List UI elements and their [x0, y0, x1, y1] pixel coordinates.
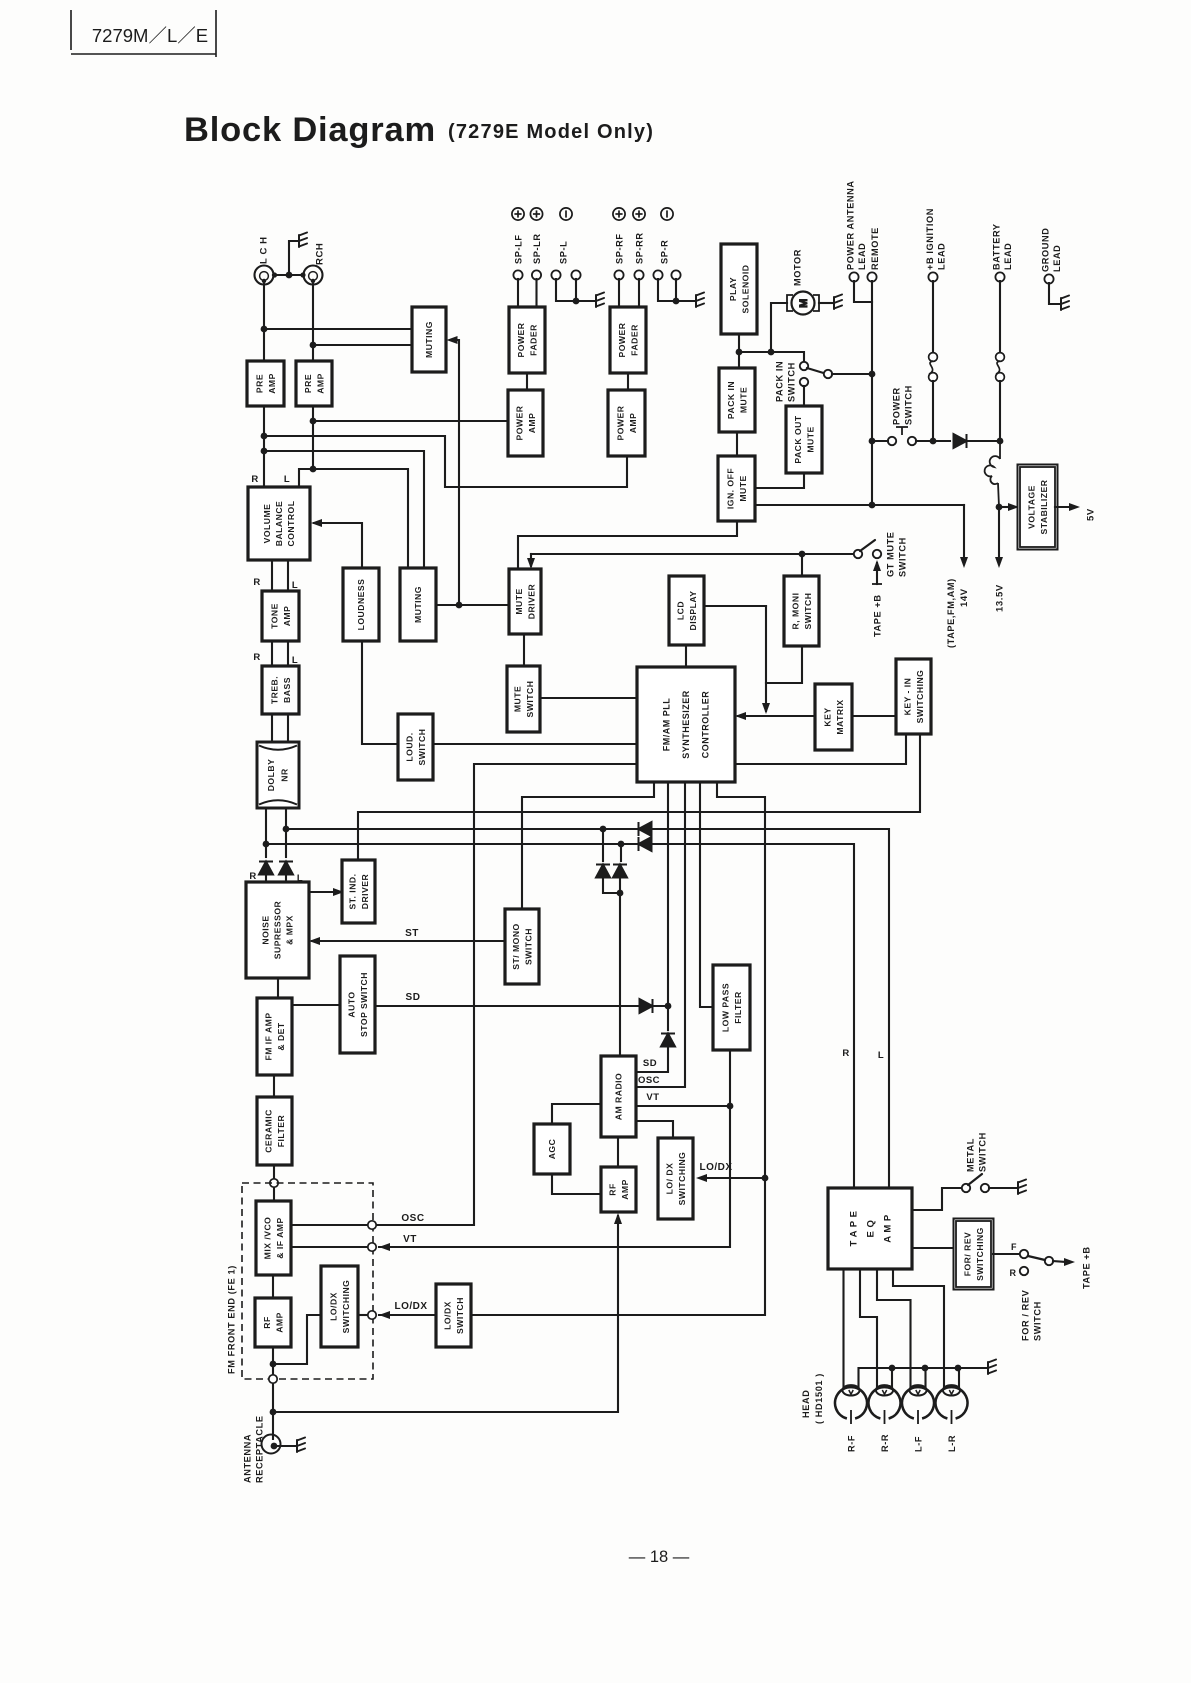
svg-text:13.5V: 13.5V	[994, 584, 1005, 612]
ground SP-R	[696, 293, 704, 308]
junction lo/dx am	[762, 1175, 769, 1182]
svg-text:HEAD: HEAD	[801, 1390, 811, 1418]
wire key-in scan line	[358, 734, 920, 860]
wire fader2 to amp2	[627, 373, 629, 390]
block NOISE SUPRESSOR MPX	[246, 882, 309, 978]
wire am radio to lo/dx sw	[636, 1121, 673, 1138]
svg-text:MATRIX: MATRIX	[835, 699, 845, 734]
svg-text:SOLENOID: SOLENOID	[740, 265, 750, 314]
arrow into MUTE DRIVER	[527, 558, 535, 569]
terminal SP-R b	[671, 270, 680, 279]
arrow into voltage stab	[1008, 503, 1019, 511]
block IGN OFF MUTE	[718, 456, 755, 521]
wire R to MUTING	[313, 344, 412, 346]
terminal SP-LF	[513, 270, 522, 279]
wire solenoid to switch	[739, 352, 804, 362]
wire fm if to ceramic	[273, 1075, 275, 1097]
diode or L	[596, 865, 610, 878]
wire LCH-RCH shield	[273, 274, 304, 276]
svg-text:TREB.: TREB.	[269, 676, 279, 704]
junction LCH shield	[272, 272, 277, 277]
wire TREB-DOLBY R	[271, 714, 273, 742]
terminal SP-RR	[634, 270, 643, 279]
svg-text:ST. IND.: ST. IND.	[347, 874, 357, 910]
arrow 5V	[1069, 503, 1080, 511]
svg-text:MUTE: MUTE	[514, 588, 524, 614]
svg-text:LOUDNESS: LOUDNESS	[356, 579, 366, 631]
svg-text:SWITCH: SWITCH	[897, 537, 907, 577]
wire ignition upper	[932, 281, 934, 353]
svg-text:POWER: POWER	[617, 322, 627, 357]
pack in switch lever	[807, 368, 824, 373]
svg-text:L C H: L C H	[258, 236, 269, 264]
wire LOUD SWITCH to PLL	[433, 743, 637, 745]
wire head3 gnd	[924, 1368, 926, 1387]
svg-text:SWITCHING: SWITCHING	[677, 1152, 687, 1206]
svg-text:— 18 —: — 18 —	[629, 1548, 690, 1566]
diode mute R	[639, 837, 652, 851]
svg-text:KEY: KEY	[822, 707, 832, 726]
block AUTO STOP SWITCH	[340, 956, 375, 1053]
svg-text:( HD1501 ): ( HD1501 )	[814, 1373, 824, 1424]
svg-text:AMP: AMP	[274, 1312, 284, 1333]
junction head4 gnd	[955, 1365, 962, 1372]
wire noise to st ind	[309, 891, 339, 893]
svg-text:OSC: OSC	[401, 1213, 424, 1224]
wire solenoid down	[738, 334, 740, 368]
svg-text:SUPRESSOR: SUPRESSOR	[273, 900, 283, 959]
plus terminal SP-RR	[633, 208, 645, 220]
wire 5V out	[1055, 506, 1071, 508]
inductor battery	[985, 441, 1000, 507]
svg-text:TAPE +B: TAPE +B	[872, 594, 882, 637]
svg-text:AMP: AMP	[267, 373, 277, 394]
svg-text:AGC: AGC	[547, 1139, 557, 1160]
diode AM SD	[661, 1034, 675, 1047]
svg-text:CONTROL: CONTROL	[286, 501, 296, 547]
terminal GROUND LEAD	[1044, 274, 1053, 283]
svg-text:SWITCH: SWITCH	[417, 729, 427, 766]
wire SP-LF to fader	[517, 279, 519, 307]
wire metal switch feed	[912, 1188, 962, 1210]
junction motor feed	[768, 349, 775, 356]
wire agc top	[552, 1104, 601, 1124]
wire TREB-DOLBY L	[287, 714, 289, 742]
head R-R	[869, 1385, 901, 1424]
junction R to muting	[310, 342, 317, 349]
wire diode L to block	[285, 874, 287, 882]
block AM RADIO	[601, 1056, 636, 1137]
diode SD	[640, 999, 653, 1013]
svg-text:7279M／L／E: 7279M／L／E	[92, 25, 208, 46]
svg-text:SWITCHING: SWITCHING	[341, 1280, 351, 1334]
svg-text:SP-LR: SP-LR	[532, 233, 542, 264]
wire pack switch to remote line	[832, 373, 872, 375]
pack in switch contact A	[800, 362, 808, 370]
junction solenoid	[736, 349, 743, 356]
svg-text:FOR/ REV: FOR/ REV	[962, 1232, 972, 1277]
terminal SP-RF	[614, 270, 623, 279]
svg-text:DRIVER: DRIVER	[526, 583, 536, 619]
block POWER FADER 1	[509, 307, 545, 373]
svg-text:E Q: E Q	[865, 1220, 876, 1238]
svg-text:ST/ MONO: ST/ MONO	[511, 923, 521, 970]
block PRE AMP R	[296, 361, 332, 406]
pack in switch contact C	[800, 378, 808, 386]
svg-text:(TAPE,FM,AM): (TAPE,FM,AM)	[946, 578, 956, 648]
wire head3 signal	[877, 1269, 911, 1387]
wire LOUDNESS to LOUD SWITCH	[362, 641, 398, 744]
wire PRE AMP L out	[263, 406, 265, 487]
svg-text:FM/AM PLL: FM/AM PLL	[662, 698, 672, 752]
fe1 bottom circle	[269, 1375, 277, 1383]
svg-text:PLAY: PLAY	[728, 277, 738, 301]
block VOLTAGE STABILIZER	[1018, 465, 1058, 550]
block ST/MONO SWITCH	[505, 909, 539, 984]
wire RMONI top	[801, 554, 803, 576]
block POWER AMP 1	[508, 390, 543, 456]
wire head4 signal	[893, 1269, 944, 1387]
wire fm if to auto stop	[292, 1004, 340, 1006]
svg-text:R: R	[251, 474, 258, 485]
wire head4 gnd	[958, 1368, 960, 1387]
svg-text:& MPX: & MPX	[285, 915, 295, 945]
wire remote line	[871, 281, 873, 505]
wire SD junction	[653, 1005, 668, 1007]
wire L tap down2	[603, 877, 620, 893]
junction rf amp out	[270, 1361, 277, 1368]
wire preL to MUTING 2	[264, 451, 424, 568]
plus terminal SP-LF	[512, 208, 524, 220]
diode power	[954, 434, 967, 448]
wire SP-RF to fader	[618, 279, 620, 307]
terminal +B IGNITION LEAD	[928, 272, 937, 281]
block POWER FADER 2	[610, 307, 646, 373]
svg-text:VOLUME: VOLUME	[262, 504, 272, 544]
svg-text:SWITCH: SWITCH	[1032, 1301, 1042, 1341]
svg-text:PRE: PRE	[254, 374, 264, 393]
wire DOLBY out L	[285, 808, 287, 857]
metal switch lever	[968, 1174, 982, 1185]
wire pin LO/DX	[471, 782, 765, 1315]
wire remote to power switch	[872, 440, 888, 442]
svg-text:& DET: & DET	[276, 1022, 286, 1051]
wire fader1 to amp1	[526, 373, 528, 390]
svg-text:Block Diagram: Block Diagram	[184, 111, 436, 149]
wire key matrix to key-in	[852, 715, 896, 717]
wire AM SD up	[667, 1006, 669, 1030]
svg-text:REMOTE: REMOTE	[870, 227, 880, 270]
svg-text:SP-RF: SP-RF	[614, 233, 624, 264]
block MUTING 2	[400, 568, 436, 641]
junction SP-R gnd	[673, 298, 680, 305]
svg-text:LO/DX: LO/DX	[442, 1301, 452, 1330]
arrow ST into noise	[309, 937, 320, 945]
wire GT arrow down	[530, 554, 532, 566]
wire preL to POWER AMP 2	[264, 436, 627, 487]
svg-text:L: L	[284, 474, 290, 485]
for/rev contact R	[1020, 1267, 1028, 1275]
svg-text:PACK OUT: PACK OUT	[793, 415, 803, 463]
ground heads	[988, 1360, 996, 1375]
wire SP-R b gnd	[675, 279, 677, 301]
junction SD	[665, 1003, 672, 1010]
svg-text:LCD: LCD	[675, 601, 685, 620]
terminal REMOTE	[867, 272, 876, 281]
svg-text:SWITCH: SWITCH	[455, 1297, 465, 1334]
junction vt	[727, 1103, 734, 1110]
wire lo/dx circle to switching	[358, 1314, 368, 1316]
svg-text:POWER ANTENNA: POWER ANTENNA	[845, 180, 855, 270]
for/rev common	[1045, 1257, 1053, 1265]
svg-text:POWER: POWER	[615, 405, 625, 440]
wire VB-TONE R	[271, 560, 273, 591]
wire am vt out	[636, 1105, 730, 1107]
block LOW PASS FILTER	[713, 965, 750, 1050]
wire antenna ground	[278, 1445, 295, 1447]
svg-text:RCH: RCH	[314, 243, 325, 265]
wire lcd/rmoni down	[765, 606, 767, 711]
svg-text:LEAD: LEAD	[1052, 245, 1062, 272]
wire DOLBY out R	[265, 808, 267, 857]
antenna receptacle	[262, 1435, 281, 1454]
wire RCH to PRE AMP R	[312, 284, 314, 361]
svg-text:5V: 5V	[1085, 508, 1096, 521]
head R-F	[835, 1385, 867, 1424]
svg-text:DISPLAY: DISPLAY	[688, 591, 698, 631]
block R MONI SWITCH	[784, 576, 819, 646]
wire SP-R to ground	[676, 300, 694, 302]
ground lead gnd	[1061, 296, 1069, 311]
block TREB BASS	[262, 666, 299, 714]
svg-text:AMP: AMP	[628, 413, 638, 434]
block KEY-IN SWITCHING	[896, 659, 931, 734]
arrow into PLL	[735, 712, 746, 720]
wire TONE-TREB R	[271, 641, 273, 666]
svg-text:R: R	[249, 871, 256, 882]
diode DL into noise sup	[279, 862, 293, 875]
wire or merge to AM RADIO	[619, 877, 621, 1056]
pack in switch contact B	[824, 370, 832, 378]
wire head ground bus	[859, 1368, 987, 1387]
GT mute switch contact B	[873, 550, 881, 558]
svg-text:SD: SD	[643, 1058, 657, 1069]
svg-text:LEAD: LEAD	[1003, 243, 1013, 270]
wire L tap down	[602, 829, 604, 861]
svg-text:BALANCE: BALANCE	[274, 501, 284, 547]
arrow into AM RF	[614, 1213, 622, 1224]
block CERAMIC FILTER	[257, 1097, 292, 1165]
svg-text:L-F: L-F	[913, 1436, 923, 1452]
block KEY MATRIX	[815, 684, 852, 750]
junction L diode tap	[600, 826, 607, 833]
wire VB-TONE L	[287, 560, 289, 591]
terminal SP-R a	[653, 270, 662, 279]
wire ignition lower	[932, 381, 934, 441]
svg-text:LOW PASS: LOW PASS	[720, 983, 730, 1032]
ground antenna	[297, 1438, 305, 1453]
junction antenna	[270, 1409, 277, 1416]
wire ign off 14V line	[755, 504, 964, 506]
wire LCD right	[704, 605, 766, 607]
wire GT mute line	[531, 553, 854, 555]
svg-text:STABILIZER: STABILIZER	[1039, 479, 1049, 534]
wire LCD to PLL	[685, 645, 687, 667]
svg-text:POWER: POWER	[514, 405, 524, 440]
block LCD DISPLAY	[669, 576, 704, 645]
block VOLUME BALANCE CONTROL	[248, 487, 310, 560]
arrow onto key wire	[762, 703, 770, 714]
wire SD line	[375, 1005, 638, 1007]
svg-text:SP-LF: SP-LF	[513, 234, 523, 264]
wire motor to ground	[819, 302, 832, 304]
wire L to MUTING	[264, 328, 412, 330]
svg-text:MUTE: MUTE	[738, 387, 748, 413]
svg-text:SWITCH: SWITCH	[786, 362, 796, 402]
terminal SP-L a	[551, 270, 560, 279]
wire preR to POWER AMP 1	[313, 420, 508, 422]
wire PRE AMP R out	[312, 406, 314, 469]
RCH jack	[304, 266, 323, 285]
wire tape+b stub	[876, 563, 878, 584]
block RF AMP AM	[601, 1167, 636, 1212]
wire battery upper	[999, 281, 1001, 353]
junction head3 gnd	[922, 1365, 929, 1372]
svg-text:SWITCH: SWITCH	[525, 681, 535, 718]
block MUTING 1	[412, 307, 446, 372]
arrow 14V	[960, 557, 968, 568]
svg-text:AMP: AMP	[527, 413, 537, 434]
wire SP-L b gnd	[575, 279, 577, 301]
junction remote 14V	[869, 502, 876, 509]
block FM IF AMP DET	[257, 998, 292, 1075]
wire rf to lo/dx switching	[273, 1315, 321, 1364]
svg-text:VT: VT	[403, 1234, 417, 1245]
wire for/rev to F	[993, 1253, 1019, 1255]
arrow TAPE+B right	[1064, 1258, 1075, 1266]
arrow VT	[379, 1243, 390, 1251]
wire ST line	[312, 940, 505, 942]
terminal SP-L b	[571, 270, 580, 279]
junction preL a	[261, 433, 268, 440]
arrow LO/DX	[379, 1311, 390, 1319]
svg-text:AMP: AMP	[282, 606, 292, 627]
wire SP-L a gnd	[556, 279, 576, 301]
wire R line to TAPE EQ	[266, 844, 854, 1188]
svg-text:KEY - IN: KEY - IN	[902, 678, 912, 716]
junction remote pack	[869, 371, 876, 378]
wire metal switch to ground	[989, 1187, 1016, 1189]
svg-text:CONTROLLER: CONTROLLER	[701, 691, 711, 759]
junction preR b	[310, 466, 317, 473]
LCH jack	[255, 266, 274, 285]
svg-text:+B IGNITION: +B IGNITION	[925, 208, 935, 270]
block TONE AMP	[262, 591, 299, 641]
wire lpf to vt	[729, 1050, 731, 1106]
wire pin LPF	[700, 782, 713, 1007]
wire 13.5V down	[998, 507, 1000, 557]
svg-text:FM FRONT END (FE 1): FM FRONT END (FE 1)	[226, 1265, 236, 1374]
wire VT into mix	[291, 1246, 368, 1248]
svg-text:MOTOR: MOTOR	[792, 249, 802, 286]
svg-text:MIX /VCO: MIX /VCO	[262, 1217, 272, 1260]
junction GT RMONI	[799, 551, 806, 558]
wire pin OSC-AM	[636, 782, 685, 1087]
wire head2 signal	[860, 1269, 877, 1387]
svg-text:SYNTHESIZER: SYNTHESIZER	[681, 690, 691, 759]
svg-text:LO/DX: LO/DX	[328, 1292, 338, 1321]
minus terminal SP-L	[560, 208, 572, 220]
wire MUTE SWITCH to PLL	[540, 697, 637, 699]
metal switch contact B	[981, 1184, 989, 1192]
arrow 13.5V	[995, 557, 1003, 568]
wire ign off to mute driver	[518, 521, 737, 569]
svg-text:L: L	[292, 655, 298, 666]
wire pack in to ign off	[736, 432, 738, 456]
wire LCH to PRE AMP L	[263, 284, 265, 361]
svg-text:14V: 14V	[959, 588, 970, 607]
VT circle	[368, 1243, 376, 1251]
block AGC	[534, 1124, 570, 1174]
svg-text:DOLBY: DOLBY	[266, 759, 276, 792]
svg-text:AMP: AMP	[315, 373, 325, 394]
wire rf amp down	[272, 1347, 274, 1439]
block FOR/REV SWITCHING	[954, 1219, 994, 1290]
metal switch contact A	[962, 1184, 970, 1192]
block PRE AMP L	[247, 361, 284, 406]
head L-R	[935, 1385, 967, 1424]
svg-text:AM RADIO: AM RADIO	[614, 1073, 624, 1120]
junction L to muting	[261, 326, 268, 333]
head L-F	[902, 1385, 934, 1424]
terminal POWER ANTENNA LEAD	[849, 272, 858, 281]
GT mute switch contact A	[854, 550, 862, 558]
svg-text:A M P: A M P	[882, 1214, 893, 1243]
svg-text:SWITCH: SWITCH	[903, 385, 913, 425]
wire PLL to key-in	[735, 734, 906, 764]
fe1 top circle	[270, 1179, 278, 1187]
fuse ignition	[929, 353, 938, 382]
block LO/DX SWITCHING AM	[658, 1138, 693, 1219]
wire antenna to am rf	[273, 1216, 618, 1412]
svg-text:(7279E Model Only): (7279E Model Only)	[448, 121, 654, 143]
for/rev contact F	[1020, 1250, 1028, 1258]
LO/DX circle	[368, 1311, 376, 1319]
svg-text:MUTE: MUTE	[805, 426, 815, 452]
junction preR a	[310, 418, 317, 425]
junction R diode tap	[618, 841, 625, 848]
wire ceramic to mix	[273, 1165, 275, 1201]
svg-text:METAL: METAL	[965, 1138, 975, 1172]
junction head2 gnd	[889, 1365, 896, 1372]
wire MUTING2 to MUTE DRIVER	[436, 604, 509, 606]
wire diode R to block	[265, 874, 267, 882]
svg-text:LO/DX: LO/DX	[699, 1162, 732, 1173]
svg-text:R: R	[253, 577, 260, 588]
wire SP-LR to fader	[535, 279, 537, 307]
ground RCH shield	[299, 233, 307, 248]
block DOLBY NR	[257, 742, 299, 808]
wire SP-L to ground	[576, 300, 594, 302]
minus terminal SP-R	[661, 208, 673, 220]
svg-text:LOUD.: LOUD.	[404, 732, 414, 761]
OSC circle	[368, 1221, 376, 1229]
ground motor	[834, 295, 842, 310]
wire pin SD	[667, 782, 669, 1006]
junction shield	[286, 272, 293, 279]
wire L pin jog	[299, 469, 313, 487]
svg-text:SD: SD	[406, 992, 421, 1003]
